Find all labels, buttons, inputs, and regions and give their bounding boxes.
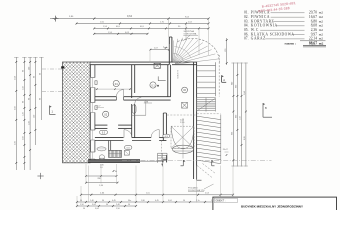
ramp bottom dashed continuation xyxy=(197,164,216,181)
svg-text:90: 90 xyxy=(102,200,104,202)
svg-text:1,20: 1,20 xyxy=(23,112,25,116)
wall V3 between room 02 and stair hall xyxy=(168,65,171,97)
driveway ramp diagonal hatch band xyxy=(197,115,221,164)
hatched existing wall strip (left) xyxy=(63,62,91,163)
svg-text:900: 900 xyxy=(236,85,238,88)
svg-text:60: 60 xyxy=(40,73,42,75)
svg-text:2,64: 2,64 xyxy=(244,91,246,95)
svg-text:m2: m2 xyxy=(319,41,324,45)
chimney flue on top wall xyxy=(150,44,170,68)
title block bottom right xyxy=(213,197,337,213)
svg-text:1,80: 1,80 xyxy=(141,200,145,202)
exterior steps at garage corner xyxy=(158,153,167,166)
svg-text:3,64: 3,64 xyxy=(168,200,172,202)
door swings on H3 xyxy=(124,130,132,138)
corridor wall H2 xyxy=(95,125,132,128)
svg-text:9,64: 9,64 xyxy=(95,208,99,210)
label podjazd pochylnia xyxy=(188,184,214,192)
svg-text:90: 90 xyxy=(34,76,36,78)
floor drain X symbol in stair hall xyxy=(182,102,188,108)
straight stair flight treads xyxy=(197,62,216,96)
svg-text:50: 50 xyxy=(83,208,85,210)
wall between wc and stair block xyxy=(109,141,111,151)
svg-text:0,45: 0,45 xyxy=(155,200,159,202)
top dimension labels xyxy=(69,14,193,34)
interior label 1,98 xyxy=(144,101,152,103)
left rotated dimension labels xyxy=(15,67,42,145)
svg-text:OBIEKT :: OBIEKT : xyxy=(215,200,225,203)
svg-text:KL.SCHOD.: KL.SCHOD. xyxy=(176,70,178,80)
svg-text:90: 90 xyxy=(23,70,25,72)
right rotated dimension labels xyxy=(232,82,247,140)
left dash line to wall upper xyxy=(42,68,62,70)
svg-text:260: 260 xyxy=(28,67,30,70)
section marker bottom pair xyxy=(181,160,215,166)
svg-text:2,07: 2,07 xyxy=(97,106,101,108)
lower stair flight dense block xyxy=(197,98,216,112)
left vertical dimension lines xyxy=(14,57,43,170)
svg-text:07.: 07. xyxy=(244,37,249,41)
svg-text:B: B xyxy=(265,106,267,110)
svg-text:800: 800 xyxy=(236,115,238,118)
section marker 1 left xyxy=(50,106,56,115)
svg-text:2,60: 2,60 xyxy=(23,136,25,140)
bottom wall xyxy=(88,155,167,163)
fixture rect right of stair block xyxy=(124,151,129,156)
oval label room 06 lower xyxy=(125,146,132,150)
svg-text:1,50: 1,50 xyxy=(23,86,25,90)
top extension verticals xyxy=(56,16,209,55)
left dash line to wall lower xyxy=(42,91,62,93)
svg-text:1,50: 1,50 xyxy=(80,204,84,206)
reference cross left bottom xyxy=(37,173,43,179)
corridor wall H3 xyxy=(95,138,166,141)
room circle 01 second room xyxy=(150,82,156,88)
section marker A right xyxy=(222,75,227,82)
svg-text:9,64: 9,64 xyxy=(127,14,133,18)
room circle 02 lower-left room xyxy=(103,111,109,117)
svg-text:3,60: 3,60 xyxy=(15,106,17,110)
svg-text:1,50: 1,50 xyxy=(240,116,242,120)
small interior stair block bottom xyxy=(109,150,122,157)
exterior winder stair fan xyxy=(173,38,219,64)
stairwell porch left wall xyxy=(169,37,172,65)
svg-text:90: 90 xyxy=(106,204,108,206)
pill label at garage wall corner xyxy=(163,134,170,138)
reference cross top left xyxy=(53,16,59,22)
top wall of building xyxy=(90,62,197,65)
svg-text:BUDYNEK MIESZKALNY JEDNORODZIN: BUDYNEK MIESZKALNY JEDNORODZINNY xyxy=(241,205,303,209)
oval label corridor xyxy=(100,130,108,134)
interior dim marks room 02 xyxy=(96,106,104,108)
right vertical dimension lines xyxy=(225,38,248,167)
svg-text:90: 90 xyxy=(23,101,25,103)
svg-text:razem :: razem : xyxy=(285,41,296,45)
elbow line above circle 01 xyxy=(157,76,166,86)
svg-text:2,46: 2,46 xyxy=(116,204,120,206)
porch wall dimension ticks xyxy=(164,46,168,49)
svg-text:2,64: 2,64 xyxy=(15,76,17,80)
section marker B right xyxy=(263,103,272,117)
building right wall xyxy=(194,62,197,179)
dashed threshold inside garage xyxy=(167,114,197,116)
garage floor slope X and pit ellipse xyxy=(171,118,194,159)
dark tick on hatch left edge xyxy=(61,66,64,68)
svg-text:90: 90 xyxy=(28,98,30,100)
svg-text:A: A xyxy=(223,78,225,82)
svg-text:2,5%: 2,5% xyxy=(180,122,185,124)
interior dim line room 04 xyxy=(96,88,132,90)
svg-text:50: 50 xyxy=(128,204,130,206)
window sill boxes protruding into rooms xyxy=(95,81,97,110)
underline under last row xyxy=(300,40,326,42)
svg-text:2,0: 2,0 xyxy=(100,167,103,169)
svg-text:28x17: 28x17 xyxy=(223,149,228,151)
door opening in V1 with swing arc xyxy=(135,98,142,105)
svg-text:m2: m2 xyxy=(319,37,324,41)
room circle 04 top-left room xyxy=(113,80,119,86)
garage door dashed edge xyxy=(160,141,162,162)
svg-text:1,93: 1,93 xyxy=(28,121,30,125)
garage step edge line xyxy=(132,114,146,116)
svg-text:88,67: 88,67 xyxy=(309,41,317,45)
label skrzynia by fan xyxy=(183,30,198,41)
svg-text:2,07: 2,07 xyxy=(154,48,158,50)
svg-text:GARAŻ: GARAŻ xyxy=(251,36,266,41)
svg-text:1,40: 1,40 xyxy=(90,200,94,202)
svg-text:150: 150 xyxy=(34,115,36,118)
svg-text:9,06: 9,06 xyxy=(244,136,246,140)
dashed threshold at ramp top xyxy=(197,113,221,115)
door opening in H1 with swing arc xyxy=(116,90,123,101)
svg-text:1,0x: 1,0x xyxy=(146,193,150,195)
garage step side line xyxy=(145,100,147,115)
svg-text:50: 50 xyxy=(183,200,185,202)
garage left wall V2 xyxy=(163,113,166,141)
svg-text:1,50: 1,50 xyxy=(116,208,120,210)
svg-text:90: 90 xyxy=(40,98,42,100)
interior wall V1 (left of garage) xyxy=(132,65,135,138)
svg-text:0,45: 0,45 xyxy=(112,200,116,202)
oval label garage door on V1 xyxy=(132,105,136,114)
wc toilet xyxy=(99,155,104,160)
ramp side small dims xyxy=(223,149,229,156)
bottom stacked labels under wall xyxy=(100,164,117,173)
svg-text:2,93: 2,93 xyxy=(15,141,17,145)
room schedule table top right xyxy=(244,11,326,47)
top dimension lines xyxy=(50,18,210,35)
bottom small dimension rows xyxy=(85,175,118,187)
wc washbasin xyxy=(97,147,106,151)
interior wall H1 (below rooms 04/01) xyxy=(95,97,171,100)
svg-text:60: 60 xyxy=(115,171,117,173)
grade dash-dot line xyxy=(122,159,272,161)
bottom extension verticals xyxy=(77,164,233,207)
bottom main dimension lines xyxy=(76,193,234,211)
stair dashed outer edge xyxy=(218,55,220,97)
svg-text:3,64: 3,64 xyxy=(92,204,96,206)
svg-text:906: 906 xyxy=(232,132,234,135)
room circle 06 stair hall xyxy=(182,87,188,93)
svg-text:940: 940 xyxy=(232,82,234,85)
inner wall right of hatch with openings xyxy=(90,65,95,160)
red ink stamp top right xyxy=(258,1,297,13)
